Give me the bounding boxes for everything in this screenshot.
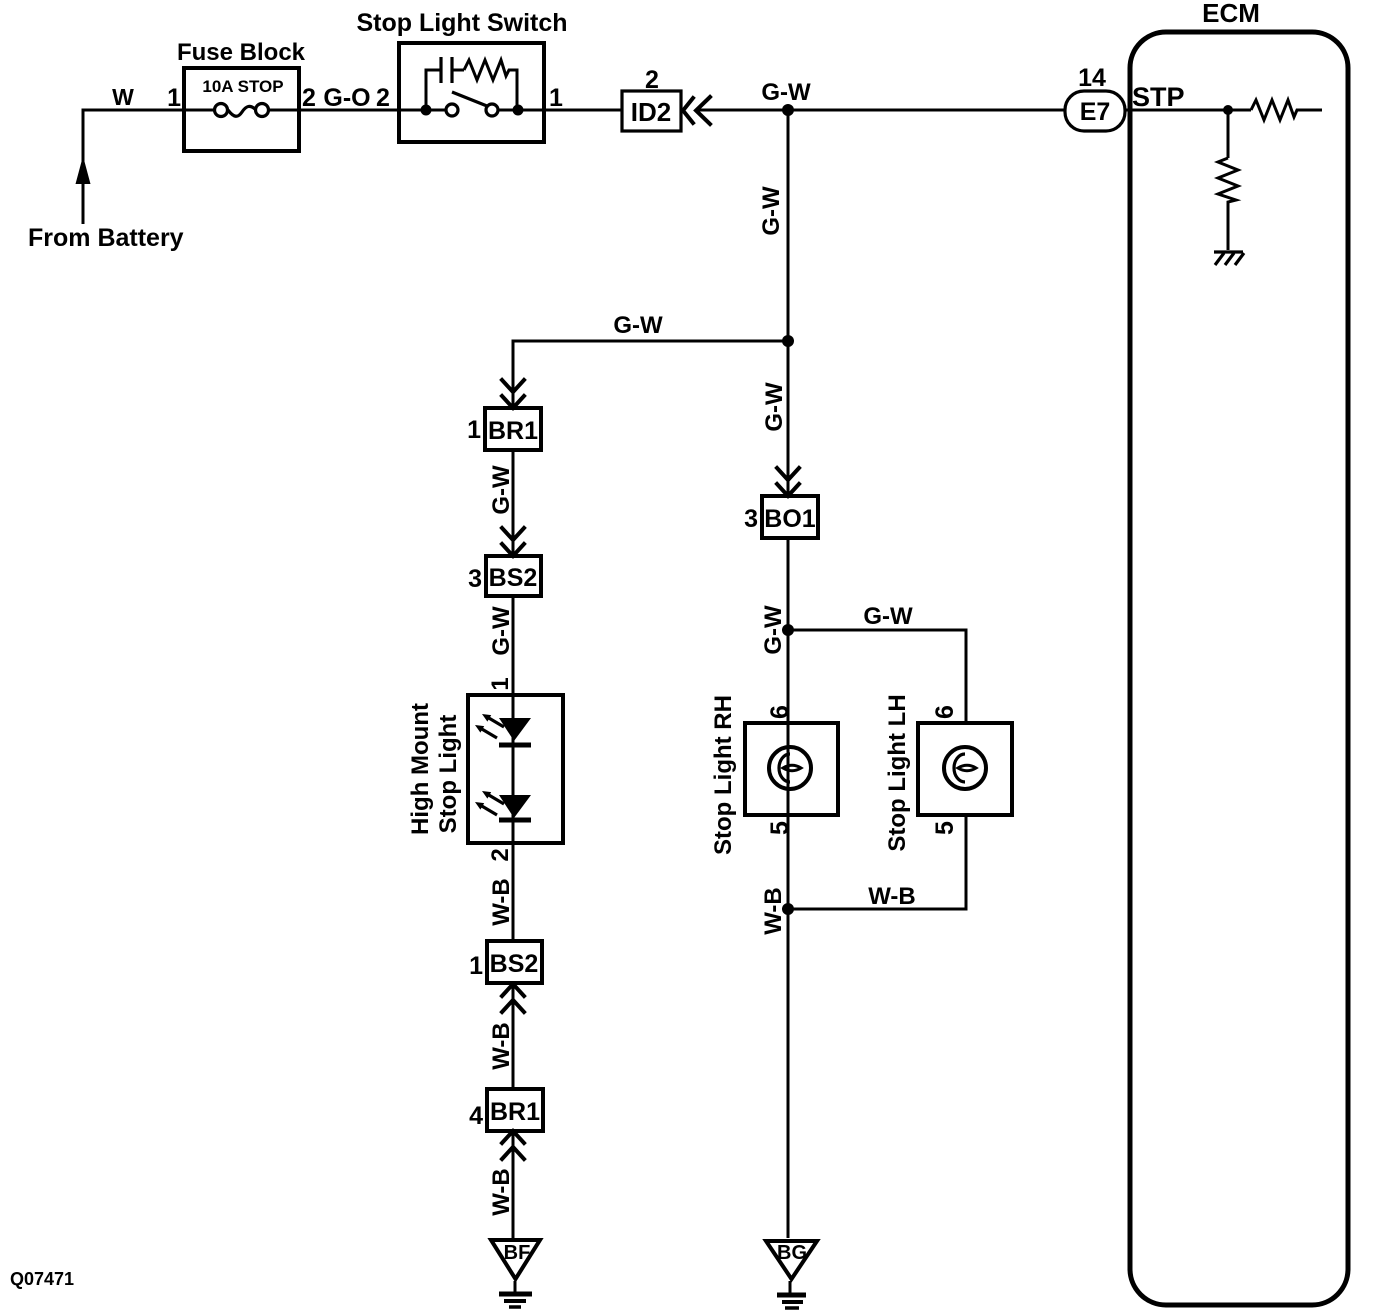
svg-text:3: 3 bbox=[468, 565, 482, 593]
svg-text:1: 1 bbox=[467, 416, 481, 444]
svg-text:Q07471: Q07471 bbox=[10, 1269, 74, 1289]
svg-text:BF: BF bbox=[504, 1242, 531, 1264]
svg-text:6: 6 bbox=[931, 705, 959, 719]
svg-text:3: 3 bbox=[744, 505, 758, 533]
svg-text:G-O: G-O bbox=[323, 84, 370, 112]
svg-text:2: 2 bbox=[376, 84, 390, 112]
svg-text:10A STOP: 10A STOP bbox=[202, 77, 283, 96]
svg-text:STP: STP bbox=[1132, 82, 1185, 112]
svg-text:G-W: G-W bbox=[758, 186, 785, 236]
svg-text:4: 4 bbox=[469, 1102, 483, 1130]
svg-text:2: 2 bbox=[645, 66, 659, 94]
svg-text:BS2: BS2 bbox=[490, 950, 539, 978]
svg-text:2: 2 bbox=[302, 84, 316, 112]
svg-text:5: 5 bbox=[931, 821, 959, 835]
svg-text:1: 1 bbox=[549, 84, 563, 112]
svg-text:E7: E7 bbox=[1080, 98, 1111, 126]
svg-text:2: 2 bbox=[487, 848, 514, 861]
svg-text:ECM: ECM bbox=[1202, 0, 1260, 28]
svg-text:1: 1 bbox=[487, 677, 514, 690]
svg-text:W-B: W-B bbox=[868, 883, 916, 910]
svg-text:G-W: G-W bbox=[761, 79, 811, 106]
svg-text:BS2: BS2 bbox=[489, 564, 538, 592]
svg-text:Stop Light LH: Stop Light LH bbox=[884, 694, 911, 851]
svg-text:W-B: W-B bbox=[488, 878, 515, 926]
svg-text:G-W: G-W bbox=[488, 465, 515, 515]
svg-text:G-W: G-W bbox=[488, 606, 515, 656]
svg-text:W-B: W-B bbox=[488, 1168, 515, 1216]
svg-text:Stop Light: Stop Light bbox=[435, 715, 462, 834]
svg-text:1: 1 bbox=[469, 952, 483, 980]
svg-text:G-W: G-W bbox=[761, 382, 788, 432]
svg-text:1: 1 bbox=[167, 84, 181, 112]
svg-text:Stop Light Switch: Stop Light Switch bbox=[356, 9, 567, 37]
svg-text:G-W: G-W bbox=[613, 312, 663, 339]
svg-text:6: 6 bbox=[766, 705, 794, 719]
svg-text:14: 14 bbox=[1078, 64, 1106, 92]
svg-text:BR1: BR1 bbox=[488, 417, 538, 445]
svg-text:W: W bbox=[112, 84, 134, 110]
svg-text:Fuse Block: Fuse Block bbox=[177, 39, 306, 66]
svg-text:ID2: ID2 bbox=[631, 97, 671, 127]
svg-text:G-W: G-W bbox=[863, 603, 913, 630]
svg-text:High Mount: High Mount bbox=[407, 703, 434, 835]
svg-text:BO1: BO1 bbox=[764, 505, 816, 533]
svg-text:BG: BG bbox=[777, 1242, 807, 1264]
svg-text:W-B: W-B bbox=[488, 1022, 515, 1070]
svg-text:BR1: BR1 bbox=[490, 1098, 540, 1126]
svg-text:5: 5 bbox=[766, 821, 794, 835]
svg-text:From Battery: From Battery bbox=[28, 224, 184, 252]
svg-text:Stop Light RH: Stop Light RH bbox=[710, 695, 737, 855]
